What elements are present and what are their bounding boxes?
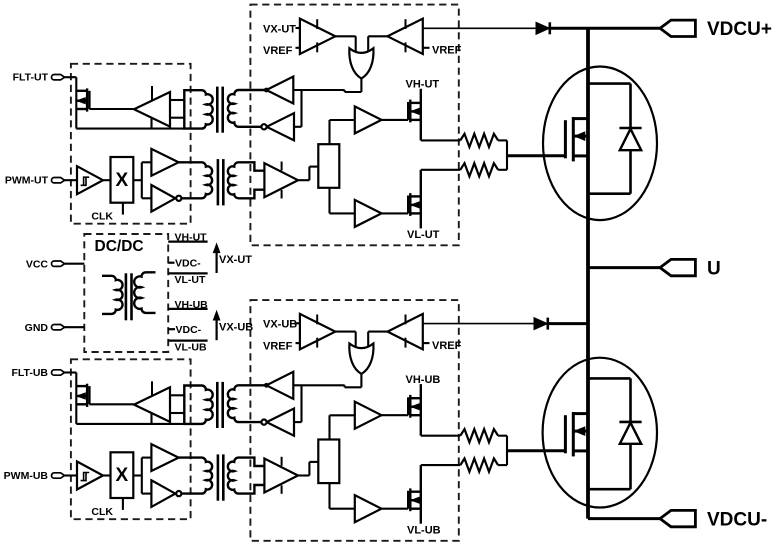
svg-text:VH-UT: VH-UT <box>175 232 208 244</box>
svg-text:VL-UT: VL-UT <box>407 229 440 241</box>
svg-text:FLT-UT: FLT-UT <box>13 72 49 84</box>
svg-text:VL-UB: VL-UB <box>175 341 207 353</box>
svg-text:CLK: CLK <box>91 506 113 518</box>
svg-text:X: X <box>116 170 129 191</box>
svg-text:VCC: VCC <box>26 258 49 270</box>
svg-text:VH-UT: VH-UT <box>406 79 440 91</box>
svg-text:VDCU+: VDCU+ <box>707 19 772 40</box>
svg-text:VDCU-: VDCU- <box>707 509 767 530</box>
svg-text:VH-UB: VH-UB <box>175 299 209 311</box>
svg-text:GND: GND <box>25 322 49 334</box>
svg-text:VL-UT: VL-UT <box>175 274 206 286</box>
svg-text:VREF: VREF <box>432 340 462 352</box>
svg-text:VDC-: VDC- <box>175 258 201 270</box>
svg-text:PWM-UT: PWM-UT <box>5 175 49 187</box>
svg-text:PWM-UB: PWM-UB <box>4 470 49 482</box>
svg-text:DC/DC: DC/DC <box>95 238 144 255</box>
svg-text:U: U <box>707 258 721 279</box>
svg-text:VX-UB: VX-UB <box>219 321 253 333</box>
svg-text:VL-UB: VL-UB <box>407 525 441 537</box>
svg-text:VDC-: VDC- <box>176 324 202 336</box>
svg-text:VH-UB: VH-UB <box>406 374 441 386</box>
svg-text:CLK: CLK <box>91 211 113 223</box>
svg-text:VX-UT: VX-UT <box>263 23 296 35</box>
svg-text:VX-UB: VX-UB <box>263 319 297 331</box>
svg-text:VREF: VREF <box>263 45 293 57</box>
svg-text:X: X <box>116 465 129 486</box>
svg-text:VREF: VREF <box>432 45 462 57</box>
svg-text:FLT-UB: FLT-UB <box>11 367 48 379</box>
svg-text:VX-UT: VX-UT <box>219 254 252 266</box>
svg-text:VREF: VREF <box>263 340 293 352</box>
